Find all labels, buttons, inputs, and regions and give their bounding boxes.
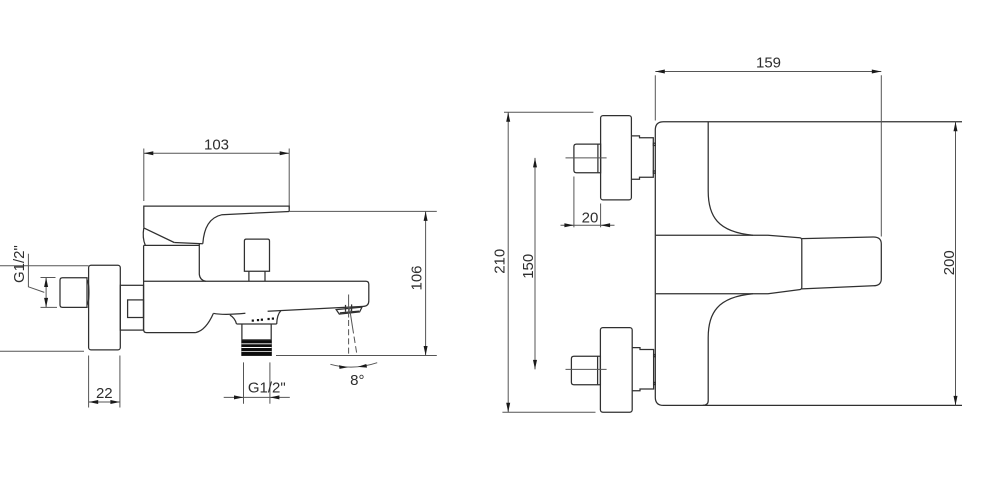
handle base bar (656, 235, 802, 294)
inlet nut (side) (60, 278, 87, 308)
outlet thread bands (242, 340, 272, 356)
wall escutcheon (side) (89, 265, 121, 350)
handle underside S-curve (203, 212, 289, 244)
dim 210 line (507, 112, 509, 412)
bottom union: escutcheon (600, 328, 632, 413)
outlet boss bottom (237, 323, 277, 325)
bottom union: connector outer (632, 348, 653, 391)
dim 103 arrow right (280, 151, 290, 155)
nut size arrows (44, 278, 48, 288)
top union: nut washer line (597, 144, 599, 172)
dim 159 extension left (654, 75, 656, 120)
cartridge block right edge (199, 244, 206, 281)
dim 159 extension right (880, 75, 882, 236)
bottom union: tabs (654, 355, 656, 357)
svg-text:200: 200 (941, 250, 958, 275)
svg-text:159: 159 (756, 54, 781, 71)
top union: centerline (566, 157, 607, 159)
spray axis tilted 8deg (349, 307, 352, 328)
bottom union: nut (571, 356, 600, 385)
handle lower ledge (174, 243, 203, 244)
column right edge upper + trumpet (708, 122, 753, 235)
dim 22 line (89, 401, 120, 403)
top union: nut (574, 144, 601, 173)
svg-text:8°: 8° (350, 372, 364, 389)
dim 159 arrows (655, 70, 665, 74)
106 top reference line (from handle step) (289, 210, 437, 212)
nut size dim ticks (41, 277, 56, 279)
body outline top edge + 200 top reference (655, 122, 962, 130)
dim G1/2 bottom extension lines (243, 362, 245, 403)
nut size dim line (45, 278, 47, 308)
handle wedge diagonal (144, 228, 174, 243)
aerator cup (336, 307, 362, 314)
bottom union: nut washer line (597, 357, 599, 385)
svg-text:G1/2": G1/2" (248, 379, 286, 396)
outlet boss left fillet (230, 315, 237, 324)
connector block (120, 285, 143, 330)
top union: connector outer (632, 136, 654, 179)
dim 106 arrows (424, 211, 428, 221)
svg-text:22: 22 (96, 385, 113, 402)
svg-text:210: 210 (492, 249, 509, 274)
body / spout top edge (144, 281, 369, 306)
8deg arc (330, 363, 377, 367)
G1/2 leader line (28, 254, 44, 293)
body bottom fillet (196, 313, 214, 332)
diverter knob stem (249, 271, 265, 281)
spout underside right (268, 306, 364, 311)
outlet boss right fillet (277, 311, 281, 324)
svg-text:106: 106 (408, 265, 425, 290)
dim 22 extension lines (88, 356, 90, 408)
handle top bar (144, 206, 289, 228)
dim 103 arrow left (144, 151, 154, 155)
dim 106 bottom reference line (276, 355, 437, 357)
svg-text:20: 20 (582, 209, 599, 226)
dim 20 arrows (564, 223, 574, 227)
dim 200 arrows (954, 122, 958, 132)
handle grip bar (802, 237, 882, 289)
spout underside left (213, 313, 245, 314)
aerator inner line (340, 311, 359, 313)
svg-text:150: 150 (520, 254, 537, 279)
cartridge block top (144, 244, 200, 246)
diverter knob (244, 239, 269, 271)
dim G1/2 bottom arrows (234, 395, 244, 399)
dim 150 line (534, 158, 536, 370)
dim 103 extension line left (143, 149, 145, 202)
dim 103 extension line right (288, 149, 290, 209)
body left edge (144, 245, 196, 332)
svg-text:103: 103 (204, 137, 229, 154)
dim 210 bottom reference (502, 411, 595, 413)
spray centerline vertical (348, 295, 350, 318)
8deg arrows (339, 365, 348, 369)
dim 106 line (425, 211, 427, 355)
bottom union: centerline (566, 368, 607, 370)
dim 210 arrows (506, 112, 510, 122)
boss dots (252, 318, 274, 322)
top union: tabs (653, 143, 655, 145)
connector inner block (128, 300, 144, 318)
svg-text:G1/2": G1/2" (11, 245, 28, 283)
dim 20 line (561, 224, 615, 226)
dim 200 line (955, 122, 957, 406)
dim 210 top reference (504, 111, 593, 113)
top union: escutcheon (601, 116, 632, 200)
column right edge lower + trumpet (703, 294, 753, 406)
dim 20 extension lines (573, 177, 575, 228)
dim 103 line (144, 152, 289, 154)
wall line top (0, 265, 89, 267)
handle tip left arc (143, 228, 145, 245)
nut washer arc (87, 280, 89, 305)
outlet cylinder (242, 324, 271, 356)
dim 22 arrows (89, 400, 99, 404)
dim 150 arrows (533, 158, 537, 168)
aerator tick lines (345, 305, 347, 312)
dim G1/2 bottom line (224, 396, 290, 398)
wall line bottom (0, 350, 84, 352)
dim 159 line (655, 71, 881, 73)
body left edge and bottom edge + 200 bottom reference (655, 130, 962, 405)
